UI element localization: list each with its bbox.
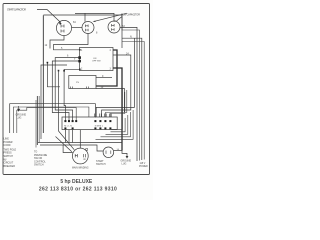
svg-text:N M M L: N M M L xyxy=(95,126,104,128)
wire switch to strip a xyxy=(55,58,79,121)
node J2 xyxy=(47,62,49,64)
wire bundle a xyxy=(112,89,123,130)
svg-text:LUG: LUG xyxy=(17,117,22,120)
wire S1 right thick L1 xyxy=(96,50,117,86)
node J3 xyxy=(58,70,60,72)
svg-text:MAIN WINDING: MAIN WINDING xyxy=(72,166,89,169)
wire right riser 5 xyxy=(122,42,144,160)
wire switch to cord d xyxy=(64,69,79,120)
wire switch drop xyxy=(58,71,60,132)
wire strip to motor bus 2 xyxy=(40,145,103,151)
node T3 xyxy=(78,60,81,63)
svg-text:8: 8 xyxy=(96,32,98,35)
svg-text:6: 6 xyxy=(67,55,69,58)
wire C1 to C2 xyxy=(71,27,82,29)
wire motor feed 4 xyxy=(79,130,81,148)
ground lug wires left xyxy=(10,104,96,133)
strip terminals bottom row xyxy=(64,127,111,129)
wire bundle e xyxy=(106,115,128,134)
leader to capacitor C2 xyxy=(95,13,128,21)
svg-text:84: 84 xyxy=(73,21,76,24)
svg-text:M L L N: M L L N xyxy=(64,126,72,128)
label LINE POWER CORD xyxy=(4,138,17,168)
svg-text:POWER: POWER xyxy=(139,166,148,168)
motor enclosure box xyxy=(42,15,44,133)
wire M2 right lead xyxy=(114,150,122,152)
ground arrow right xyxy=(126,156,129,159)
start switch M2 xyxy=(103,147,114,158)
wire S2 lead xyxy=(96,77,112,79)
node T1 xyxy=(79,49,81,51)
wire to cord e xyxy=(47,63,60,87)
node T5 xyxy=(79,69,81,71)
node T2 xyxy=(78,56,81,59)
terminal strip TB1 xyxy=(62,117,117,130)
svg-text:12: 12 xyxy=(45,44,48,47)
capacitor C1 xyxy=(56,20,71,35)
wire strip to motor bus 1 xyxy=(38,143,127,157)
leader to capacitor C3 xyxy=(117,17,123,22)
svg-text:ON: ON xyxy=(93,58,97,60)
wire C2 bottom to switch terminal xyxy=(54,34,89,50)
wire run cap right lead xyxy=(120,27,137,161)
border frame xyxy=(3,4,150,175)
wire C2 top riser xyxy=(84,13,86,21)
wire switch to strip b xyxy=(52,61,79,121)
svg-text:BREAKER: BREAKER xyxy=(4,165,16,168)
wire S2 bottom lead xyxy=(96,89,124,113)
svg-text:N: N xyxy=(130,36,132,39)
cord wires left bundle xyxy=(38,96,40,142)
svg-text:SWITCH: SWITCH xyxy=(34,164,44,167)
label TO PRESSURE SWITCH xyxy=(34,151,48,167)
wire motor feed 3 xyxy=(72,130,74,143)
svg-text:PS: PS xyxy=(76,82,79,84)
strip terminals top row xyxy=(64,120,111,122)
wire bundle b xyxy=(110,92,125,117)
svg-text:LUG: LUG xyxy=(122,163,127,166)
wire motor feed 2 xyxy=(68,130,70,143)
svg-text:115 V: 115 V xyxy=(140,163,146,165)
wire S1 right thick L2 xyxy=(113,68,122,151)
node J1 xyxy=(63,70,65,72)
capacitor C3 xyxy=(108,21,120,33)
svg-text:SWITCH: SWITCH xyxy=(96,163,106,166)
wire switch to cord c xyxy=(41,65,67,139)
wire S1 mid right xyxy=(102,55,131,117)
svg-text:5 hp DELUXE: 5 hp DELUXE xyxy=(60,179,93,185)
strip pins right xyxy=(95,114,112,118)
pressure switch box S1 xyxy=(80,48,114,71)
wire right riser 2 xyxy=(122,15,139,161)
wire bundle d xyxy=(111,118,126,132)
wire motor feed 1 xyxy=(64,130,66,143)
wire C1 top to C3 top xyxy=(75,13,114,21)
svg-text:1: 1 xyxy=(81,50,83,52)
svg-text:RUN CAPACITOR: RUN CAPACITOR xyxy=(121,13,140,17)
wire C1 bottom to junction xyxy=(50,36,64,49)
motor M1 xyxy=(72,148,88,164)
svg-text:262 113 8310 or 262 113 9310: 262 113 8310 or 262 113 9310 xyxy=(39,186,117,192)
wire bundle g xyxy=(96,110,134,139)
wire motor left lead xyxy=(63,145,73,153)
terminal tab xyxy=(86,149,88,151)
capacitor C2 xyxy=(82,22,94,34)
wire bundle c xyxy=(105,90,126,117)
wire motor diagonal a xyxy=(59,131,75,150)
svg-text:START CAPACITOR: START CAPACITOR xyxy=(7,8,26,12)
svg-text:OFF SW: OFF SW xyxy=(92,61,101,63)
svg-text:CORD: CORD xyxy=(4,144,11,147)
svg-text:4: 4 xyxy=(110,50,112,52)
pressure switch contact box S2 xyxy=(69,76,96,89)
ground lug arrow xyxy=(18,106,20,109)
wire bundle f xyxy=(101,112,131,137)
wire motor diagonal b xyxy=(56,137,72,152)
leader to capacitor C1 xyxy=(37,10,61,23)
wire right riser 3 xyxy=(122,38,142,160)
